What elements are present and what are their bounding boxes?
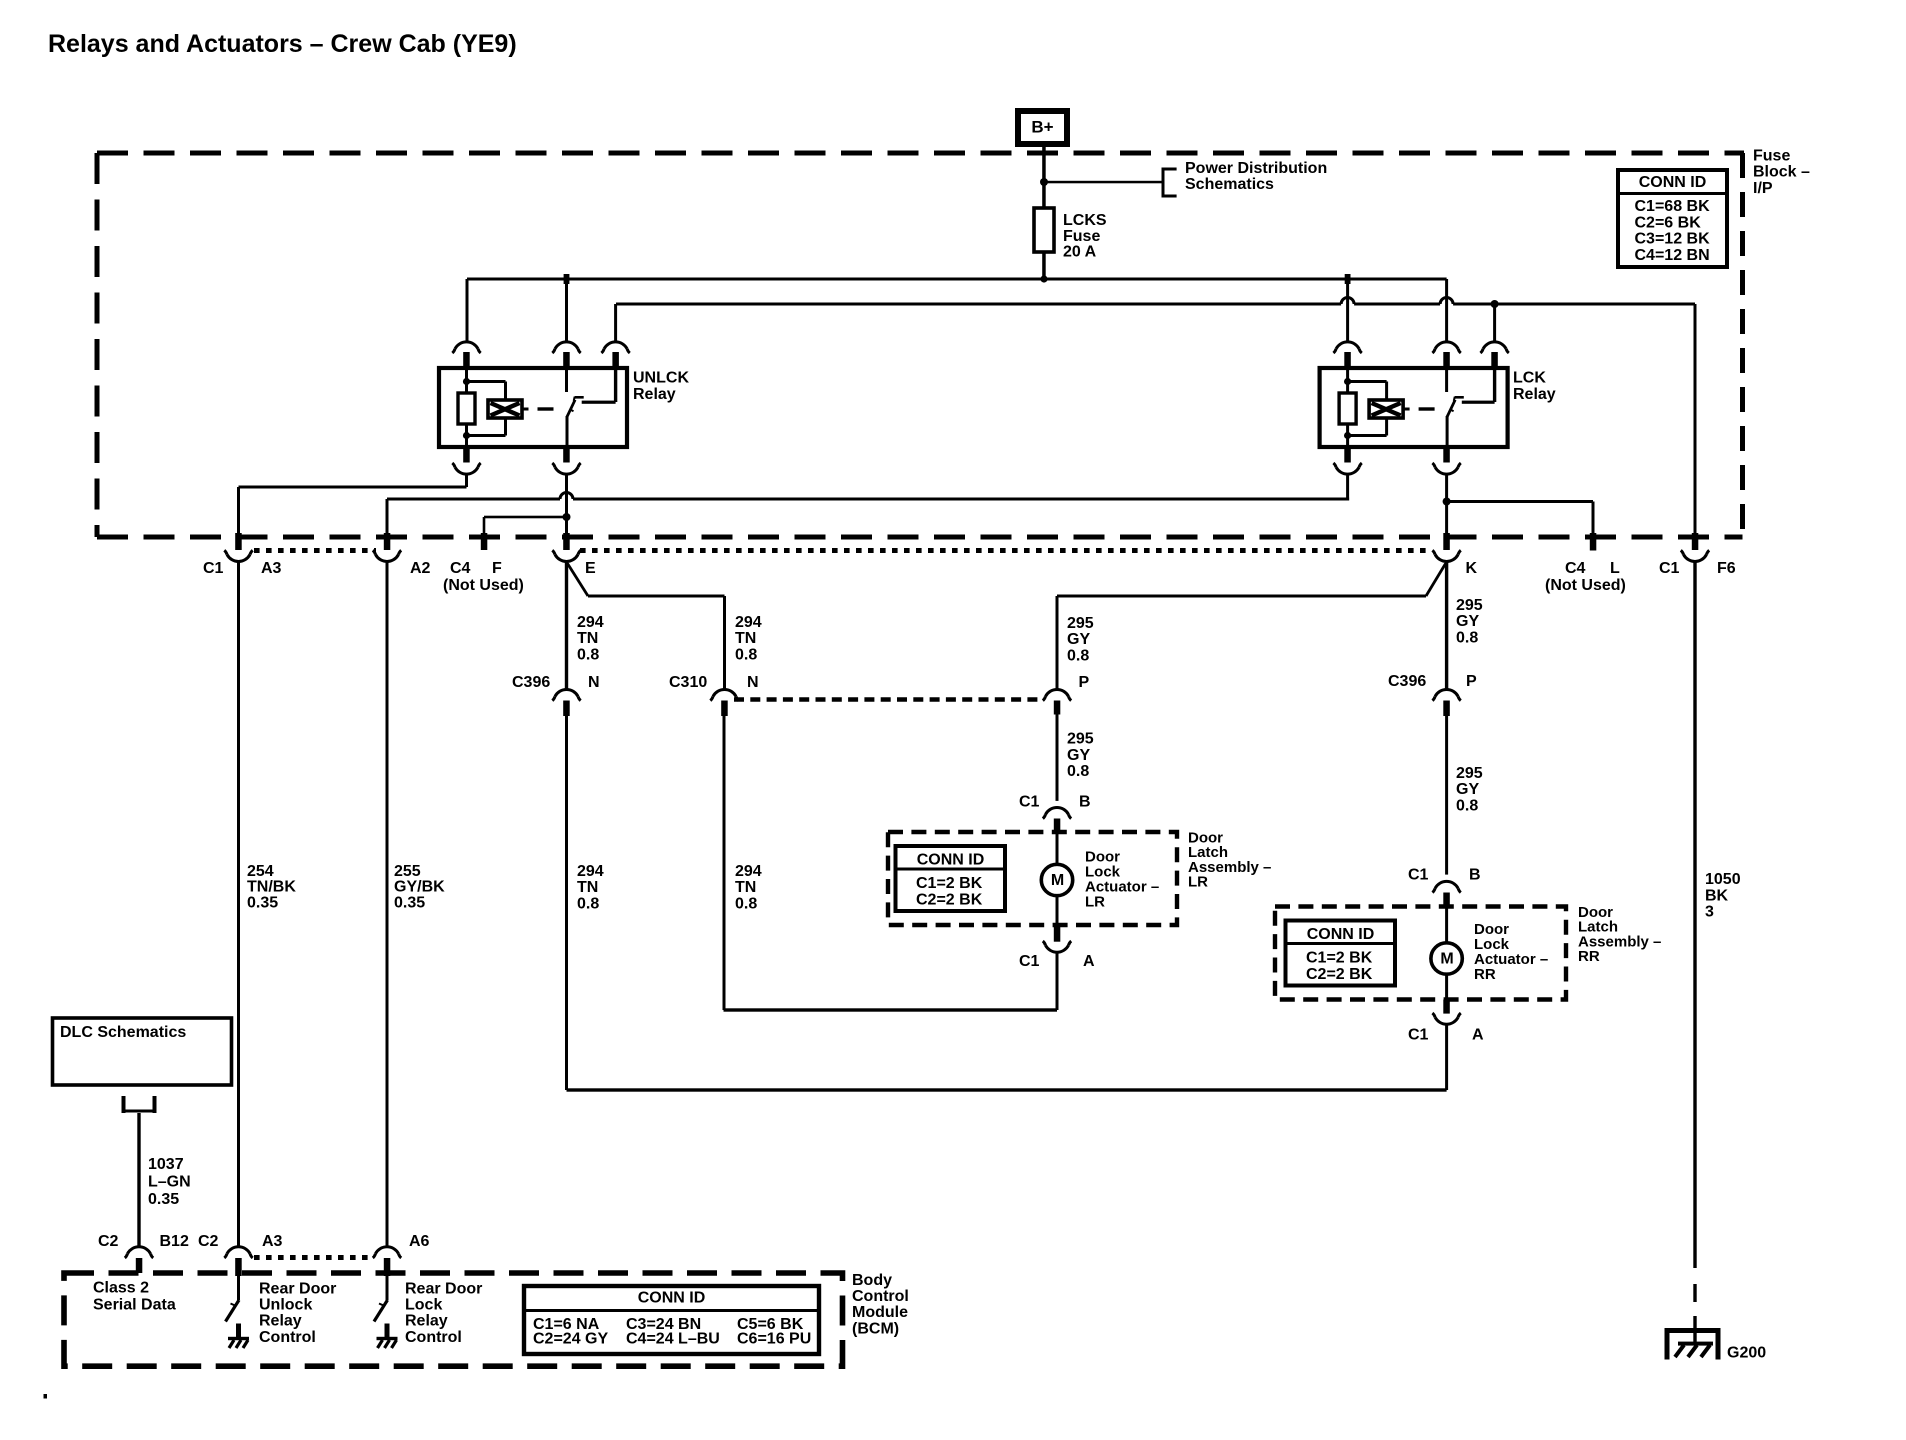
svg-text:0.8: 0.8 [735,646,757,663]
fuse LCKS 20A body [1034,208,1054,252]
svg-text:B: B [1079,794,1091,811]
wire bus2 segment c [1453,303,1695,306]
UNLCK NO contact lead [614,368,617,402]
wire jumper to terminal F [484,516,567,519]
wire LR return horizontal [724,1008,1058,1011]
wire 1050 BK down from F6 [1693,562,1696,1268]
terminal A2 stub through boundary [384,533,391,550]
connector cap at BCM B12 [128,1247,151,1254]
wire LCK coil parallel branch [1348,380,1387,383]
connector cup at UNLCK pin 85 [455,467,478,474]
svg-text:P: P [1466,673,1477,690]
connector cup at LR terminal A [1046,945,1069,952]
svg-text:0.35: 0.35 [148,1191,179,1208]
wire bus1 right corner down to LCK switch pin [1445,279,1448,341]
BCM A3 stub [235,1258,242,1276]
svg-text:3: 3 [1705,904,1714,921]
svg-text:A6: A6 [409,1233,430,1250]
svg-text:LR: LR [1085,894,1105,911]
svg-text:C2=2 BK: C2=2 BK [916,891,983,908]
LCK relay pin 85 stub (bottom coil) [1344,447,1351,463]
door latch assembly RR dashed box [1275,907,1566,1000]
svg-text:G200: G200 [1727,1345,1766,1362]
ground G200 symbol [1665,1328,1721,1333]
svg-text:295: 295 [1456,765,1483,782]
wire 1050 BK into ground [1693,1316,1696,1344]
svg-text:C396: C396 [512,674,550,691]
connector cup at LCK pin 85 [1336,467,1359,474]
LCK relay pin 87 stub [1491,352,1498,368]
svg-text:LR: LR [1188,874,1208,891]
wire LCK coil return drop [1346,475,1349,501]
node: LCK coil bottom junction [1344,432,1351,439]
LCK NO contact lead [1493,368,1496,402]
node: UNLCK coil top junction [463,378,470,385]
wire bus1 tap down to UNLCK switch pin [565,279,568,341]
svg-text:C2=24 GY: C2=24 GY [533,1331,608,1348]
wire 1050 BK dash segment [1693,1284,1696,1302]
UNLCK switch fixed contact lead [565,368,568,392]
wire to power distribution schematics [1044,181,1163,184]
UNLCK coil-to-contact link lead [522,408,529,411]
motor M LR lead bottom [1056,896,1059,926]
connector cap at RR terminal B [1435,881,1458,888]
terminal E stub through boundary [563,533,570,550]
svg-text:C396: C396 [1388,673,1426,690]
wire E diagonal branch [568,564,589,597]
svg-text:0.35: 0.35 [247,894,278,911]
svg-text:295: 295 [1067,615,1094,632]
node: bus2 junction to LCK relay NO pin [1491,300,1499,308]
P left stub [1054,701,1061,715]
svg-text:C1: C1 [1019,953,1040,970]
wire RR return horizontal [567,1088,1447,1091]
wire 294 TN from E down to C396 [565,562,568,688]
svg-text:1037: 1037 [148,1156,184,1173]
svg-text:0.8: 0.8 [1067,647,1089,664]
svg-text:TN: TN [577,630,598,647]
svg-text:294: 294 [577,614,604,631]
wire 295 GY from K down to C396 P [1445,562,1448,688]
svg-text:A3: A3 [262,1233,283,1250]
svg-text:TN: TN [735,630,756,647]
power symbol B+ box [1018,111,1067,144]
svg-text:CONN ID: CONN ID [1307,926,1375,943]
svg-text:P: P [1079,674,1090,691]
power distribution schematics bracket [1162,168,1165,198]
motor M RR lead bottom [1445,974,1448,1000]
wire LCK coil return horizontal segment a [387,498,560,501]
svg-text:CONN ID: CONN ID [1639,174,1707,191]
terminal L stub (not used) [1590,533,1597,551]
svg-text:C2=6 BK: C2=6 BK [1635,214,1702,231]
LCK relay coil (box with X) [1369,400,1403,418]
svg-text:DLC Schematics: DLC Schematics [60,1024,186,1041]
LCK switch fixed contact lead [1445,368,1448,392]
wire UNLCK coil return horizontal run [239,486,467,489]
connector cup at LCK switch bottom pin [1435,467,1458,474]
connector C396 terminal P cap (left) [1046,689,1069,696]
connector C310 terminal N cap [713,689,736,696]
svg-text:B+: B+ [1031,118,1053,137]
svg-text:C2=2 BK: C2=2 BK [1306,966,1373,983]
wire bus2 hop over LCK switch wire [1440,298,1453,304]
BCM B12 stub [136,1258,143,1273]
node: bus1 tap to LCK relay coil [1345,274,1351,284]
UNLCK switch common bottom lead [566,416,569,447]
svg-text:LCKS: LCKS [1063,212,1107,229]
resistor in LCK relay [1339,393,1356,424]
LCK coil-to-contact link lead [1403,408,1410,411]
wire bus2 left corner down to UNLCK NO pin [614,304,617,341]
svg-text:Relay: Relay [1513,386,1556,403]
UNLCK linkage dash [538,407,554,410]
wire bus2 (relay NO to ground rail) segment a [616,303,1341,306]
svg-text:RR: RR [1578,948,1600,965]
svg-text:Rear Door: Rear Door [259,1281,336,1298]
svg-text:A: A [1472,1027,1484,1044]
wire down to fuse block terminal A3 [237,487,240,534]
fuse block I/P boundary bottom (dashed) [97,535,1743,540]
svg-text:Schematics: Schematics [1185,176,1274,193]
svg-text:BK: BK [1705,887,1729,904]
wire branch down to C310 N [723,596,726,689]
motor M1 door lock actuator LR [1041,864,1072,895]
svg-text:Rear Door: Rear Door [405,1281,482,1298]
svg-text:C1: C1 [1019,794,1040,811]
svg-text:C6=16 PU: C6=16 PU [737,1331,811,1348]
svg-text:Relay: Relay [405,1313,448,1330]
wire UNLCK switch output down [565,475,568,534]
wire LCK switch output down [1445,475,1448,534]
fuse block I/P boundary left (dashed) [95,153,100,537]
wire bus2 right corner down to F6 [1694,304,1697,534]
svg-text:L: L [1610,560,1620,577]
svg-text:N: N [747,674,759,691]
svg-text:0.8: 0.8 [577,646,599,663]
connector cap at UNLCK coil pin 86 [455,342,478,349]
LCK coil bottom lead [1346,424,1349,447]
LR A stub [1054,925,1061,942]
dashed wire C310 N to C396 P (in-connector link) [734,697,1043,701]
LR B stub [1054,819,1061,834]
svg-text:F6: F6 [1717,560,1736,577]
C396 P stub [1443,701,1450,717]
svg-text:C4=24 L–BU: C4=24 L–BU [626,1331,720,1348]
motor M RR lead top [1445,908,1448,944]
connector C1 terminal K cup [1435,555,1458,562]
svg-text:E: E [585,560,596,577]
node: junction with F jumper [563,513,571,521]
C310 N stub [721,701,728,717]
UNLCK relay pin 30 stub [563,352,570,368]
svg-text:RR: RR [1474,966,1496,983]
connector cap at LR terminal B [1046,807,1069,814]
connector cap at UNLCK NO pin 87 [604,342,627,349]
stray mark (scan artifact) [44,1394,48,1399]
wire bus1 (B+ feed rail) [467,278,1447,281]
connector C396 terminal N cap [555,689,578,696]
svg-text:N: N [588,674,600,691]
svg-text:A: A [1083,953,1095,970]
connector C396 terminal P cap (right) [1435,689,1458,696]
wire bus1 to UNLCK coil pin (incl bus1 left corner) [466,279,469,341]
wire UNLCK coil return drop [465,475,468,487]
svg-text:Relays and Actuators – Crew Ca: Relays and Actuators – Crew Cab (YE9) [48,30,517,58]
wire branch horizontal to P [1057,595,1426,598]
svg-text:Fuse: Fuse [1753,148,1790,165]
connector cup at UNLCK switch bottom pin [555,467,578,474]
terminal K stub through boundary [1443,533,1450,550]
svg-text:(BCM): (BCM) [852,1320,899,1337]
wire 295 GY down to RR door latch B [1445,716,1448,875]
svg-text:294: 294 [735,863,762,880]
LR CONN ID table box [896,846,1006,911]
wire LR A return down [1056,953,1059,1010]
svg-text:Block –: Block – [1753,164,1810,181]
UNLCK coil top lead [465,368,468,393]
svg-text:Control: Control [405,1329,462,1346]
svg-text:C1=2 BK: C1=2 BK [916,875,983,892]
svg-text:C1: C1 [203,560,224,577]
fuse block I/P boundary right (dashed) [1740,153,1745,537]
terminal F6 stub through boundary [1692,533,1699,550]
svg-text:B: B [1469,867,1481,884]
svg-text:K: K [1466,560,1478,577]
svg-text:254: 254 [247,863,274,880]
svg-text:C1=68 BK: C1=68 BK [1635,198,1711,215]
svg-text:B12: B12 [160,1233,189,1250]
body control module dashed box [64,1273,843,1366]
svg-text:0.8: 0.8 [735,895,757,912]
DLC connector bracket [122,1096,126,1113]
svg-text:Serial Data: Serial Data [93,1297,176,1314]
svg-text:295: 295 [1456,597,1483,614]
wire jumper to terminal L [1447,500,1593,503]
wire 254 TN/BK down to BCM A3 [237,562,240,1246]
LCK linkage dash [1419,407,1435,410]
connector C1 terminal A2 cup [376,555,399,562]
wire branch horizontal to C310 [588,595,725,598]
node: junction with L jumper [1443,498,1451,506]
wire down to fuse block terminal A2 [386,499,389,534]
svg-text:C1: C1 [1408,867,1429,884]
connector C1 terminal A3 cup [227,555,250,562]
svg-text:Module: Module [852,1304,908,1321]
BCM CONN ID table box [524,1286,819,1354]
wire hop over unlock feed at x566 [560,493,573,499]
svg-text:TN/BK: TN/BK [247,879,296,896]
svg-text:TN: TN [735,879,756,896]
svg-text:Class 2: Class 2 [93,1280,149,1297]
connector cap at LCK coil pin 86 [1336,342,1359,349]
svg-text:C4=12 BN: C4=12 BN [1635,247,1710,264]
UNLCK relay pin 86 stub [463,352,470,368]
svg-text:C2: C2 [198,1233,219,1250]
svg-text:C3=12 BK: C3=12 BK [1635,231,1711,248]
BCM A6 stub [384,1258,391,1276]
BCM rear door unlock relay driver switch and ground [237,1276,240,1300]
svg-text:A2: A2 [410,560,431,577]
node: bus1 junction at fuse [1040,275,1047,282]
connector cap at BCM A6 [376,1247,399,1254]
motor M LR lead top [1056,833,1059,865]
fuse block CONN ID table box [1618,170,1727,267]
UNLCK coil bottom lead [465,424,468,447]
UNLCK relay coil (box with X) [488,400,522,418]
motor M2 door lock actuator RR [1431,943,1462,974]
BCM rear door lock relay driver switch and ground [386,1276,389,1300]
terminal A3 stub through boundary [235,533,242,550]
RR A stub [1443,1000,1450,1014]
svg-text:Control: Control [852,1288,909,1305]
UNLCK switch blade [567,400,575,417]
wire K diagonal branch [1426,564,1446,597]
RR B stub [1443,893,1450,908]
svg-text:0.8: 0.8 [1456,797,1478,814]
svg-text:C1: C1 [1408,1027,1429,1044]
LCK coil top lead [1346,368,1349,393]
wire branch down to P [1056,596,1059,689]
svg-text:Unlock: Unlock [259,1297,312,1314]
wire fuse to bus1 [1042,252,1046,279]
svg-text:GY: GY [1456,781,1479,798]
svg-text:0.8: 0.8 [1456,629,1478,646]
wire RR A return down [1445,1025,1448,1090]
node: LCK coil top junction [1344,378,1351,385]
RR CONN ID table box [1286,921,1396,986]
svg-text:UNLCK: UNLCK [633,370,689,387]
svg-text:0.8: 0.8 [577,895,599,912]
svg-text:Fuse: Fuse [1063,228,1100,245]
svg-text:C1=2 BK: C1=2 BK [1306,950,1373,967]
svg-text:GY: GY [1067,631,1090,648]
UNLCK relay pin 87 stub [612,352,619,368]
svg-text:20 A: 20 A [1063,244,1097,261]
wire bus2 segment b [1354,303,1440,306]
svg-text:0.35: 0.35 [394,894,425,911]
wire 255 GY/BK down to BCM A6 [386,562,389,1246]
svg-text:M: M [1440,951,1453,968]
node: bus1 tap to UNLCK relay switch [564,274,570,284]
node: UNLCK coil bottom junction [463,432,470,439]
svg-text:Lock: Lock [405,1297,442,1314]
svg-text:Power Distribution: Power Distribution [1185,160,1327,177]
LCK switch common bottom lead [1446,416,1449,447]
terminal F stub (not used) [481,533,488,550]
connector C1 terminal F6 cup [1684,555,1707,562]
DLC Schematics box [53,1018,232,1085]
LCK switch blade [1447,400,1455,417]
svg-text:Control: Control [259,1329,316,1346]
wire 295 GY down to LR door latch B [1056,715,1059,801]
relay LCK body box [1320,368,1508,447]
wire C396 N down (294 TN) [565,716,568,1090]
fuse block I/P boundary top (dashed) [97,151,1744,156]
wire 1037 L-GN from DLC [137,1113,140,1246]
svg-text:F: F [492,560,502,577]
svg-text:TN: TN [577,879,598,896]
svg-text:C1: C1 [1659,560,1680,577]
svg-text:Body: Body [852,1272,892,1289]
connector cap at LCK NO pin 87 [1483,342,1506,349]
wire up to C310 N [723,716,726,1010]
svg-text:CONN ID: CONN ID [917,852,985,869]
svg-text:GY: GY [1456,613,1479,630]
svg-text:0.8: 0.8 [1067,763,1089,780]
svg-text:C4: C4 [1565,560,1586,577]
svg-text:A3: A3 [261,560,282,577]
LCK relay pin 30 stub [1443,352,1450,368]
svg-text:CONN ID: CONN ID [638,1290,706,1307]
node: junction at power distribution tap [1040,178,1048,186]
svg-text:Relay: Relay [633,386,676,403]
wire bus1 tap down to LCK coil pin [1346,279,1349,341]
relay UNLCK body box [439,368,627,447]
svg-text:(Not Used): (Not Used) [1545,577,1626,594]
svg-text:255: 255 [394,863,421,880]
svg-text:295: 295 [1067,731,1094,748]
connector cap at UNLCK switch pin 30 [555,342,578,349]
svg-text:C2: C2 [98,1233,119,1250]
wire bus2 junction down to LCK NO pin [1493,304,1496,341]
svg-text:294: 294 [577,863,604,880]
UNLCK relay pin 87a/common bottom stub [563,447,570,463]
door latch assembly LR dashed box [888,832,1177,925]
UNLCK relay pin 85 stub (bottom coil) [463,447,470,463]
svg-text:Relay: Relay [259,1313,302,1330]
svg-text:294: 294 [735,614,762,631]
LCK relay pin 87a/common bottom stub [1443,447,1450,463]
connector cap at LCK switch pin 30 [1435,342,1458,349]
svg-text:1050: 1050 [1705,871,1741,888]
connector C1 dotted row segment A3-A2 [254,548,376,553]
connector cap at BCM A3 [227,1247,250,1254]
svg-text:L–GN: L–GN [148,1174,191,1191]
C396 N stub [563,701,570,717]
wire UNLCK coil parallel branch [467,380,506,383]
svg-text:GY/BK: GY/BK [394,879,445,896]
svg-text:GY: GY [1067,747,1090,764]
connector C1 dotted row segment E-K [580,548,1432,553]
svg-text:LCK: LCK [1513,370,1546,387]
svg-text:C4: C4 [450,560,471,577]
wire B+ to fuse [1042,147,1046,208]
LCK relay pin 86 stub [1344,352,1351,368]
connector cup at RR terminal A [1435,1017,1458,1024]
resistor in UNLCK relay [458,393,475,424]
svg-text:(Not Used): (Not Used) [443,577,524,594]
BCM connector dotted row [254,1255,373,1260]
svg-text:C310: C310 [669,674,707,691]
connector C1 terminal E cup [555,555,578,562]
svg-text:I/P: I/P [1753,180,1773,197]
wire bus2 hop over LCK coil wire [1341,298,1354,304]
svg-text:M: M [1051,872,1064,889]
wire LCK coil return horizontal segment b [573,498,1349,501]
